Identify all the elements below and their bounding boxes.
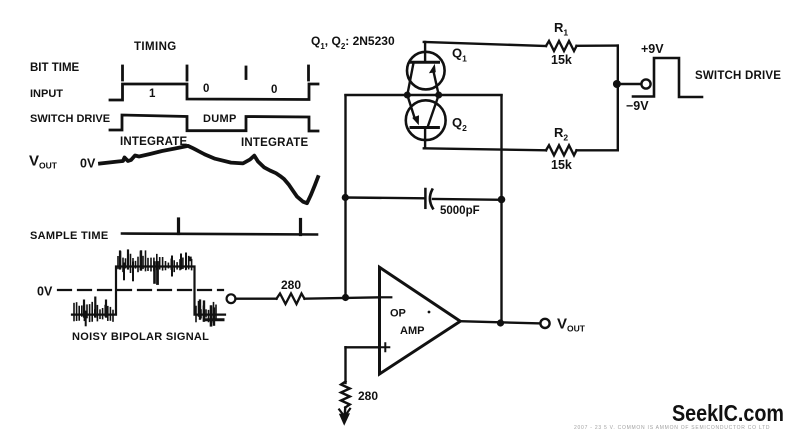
node junction right dot xyxy=(435,92,442,99)
transistor Q1 emitter leg with arrow xyxy=(433,70,439,95)
node junction left dot xyxy=(404,92,411,99)
wire top Q1 to R1 xyxy=(424,42,546,46)
transistor Q2 base bar xyxy=(411,126,438,129)
svg-text:INPUT: INPUT xyxy=(30,88,63,100)
op-amp plus sign xyxy=(381,343,389,351)
vout waveform curve xyxy=(100,146,318,203)
op-amp minus sign xyxy=(382,296,392,298)
transistor Q2 emitter leg with arrow xyxy=(407,95,415,119)
svg-text:SeekIC.com: SeekIC.com xyxy=(672,400,784,426)
svg-text:BIT TIME: BIT TIME xyxy=(30,62,80,74)
svg-text:5000pF: 5000pF xyxy=(440,205,480,217)
resistor R2 xyxy=(546,145,577,155)
switch drive pulse waveform xyxy=(633,58,702,97)
output terminal circle xyxy=(540,319,549,328)
svg-text:−9V: −9V xyxy=(626,99,649,113)
capacitor C 5000pF right plate xyxy=(430,190,433,209)
svg-text:280: 280 xyxy=(358,389,378,403)
wire feedback left to capacitor xyxy=(345,196,424,199)
transistor Q1 base bar xyxy=(411,61,439,64)
wire plus input vertical xyxy=(344,347,346,383)
transistor Q2 circle xyxy=(406,100,446,140)
wire transistor junction line xyxy=(346,94,502,96)
svg-text:SWITCH DRIVE: SWITCH DRIVE xyxy=(695,70,781,82)
svg-text:280: 280 xyxy=(281,278,301,292)
svg-text:TIMING: TIMING xyxy=(134,41,177,53)
wire right vertical R1-R2 xyxy=(617,46,619,151)
bit time tick 3 xyxy=(245,67,248,79)
wire junction to terminal xyxy=(618,83,641,85)
sample time baseline xyxy=(122,234,317,235)
svg-text:0: 0 xyxy=(203,83,209,95)
node output junction xyxy=(497,319,504,326)
svg-text:OP: OP xyxy=(390,308,406,320)
wire Q2 to R2 xyxy=(424,148,546,150)
svg-text:0: 0 xyxy=(271,84,277,96)
wire R1 to corner xyxy=(577,44,618,47)
wire R2 to corner xyxy=(577,149,618,151)
node feedback right junction xyxy=(498,196,506,204)
sample tick 1 xyxy=(177,219,180,234)
svg-text:+9V: +9V xyxy=(641,42,664,56)
transistor Q2 collector lead down xyxy=(424,128,426,149)
sample tick 2 xyxy=(299,220,302,235)
switch drive waveform xyxy=(110,115,318,131)
svg-text:1: 1 xyxy=(149,88,156,100)
svg-text:AMP: AMP xyxy=(400,325,424,337)
bit time tick 1 xyxy=(121,66,124,80)
node feedback left junction xyxy=(342,194,349,201)
transistor Q1 collector lead xyxy=(424,42,426,62)
svg-text:DUMP: DUMP xyxy=(203,113,237,125)
svg-text:2007 - 23 5 V. COMMON IS AMMON: 2007 - 23 5 V. COMMON IS AMMON OF SEMICO… xyxy=(574,425,770,430)
node minus input junction xyxy=(342,294,349,301)
wire plus input horizontal xyxy=(346,346,380,348)
wire R280 to op-amp minus node xyxy=(305,297,380,298)
wire left rail xyxy=(344,95,346,297)
input waveform xyxy=(110,84,318,100)
resistor R1 xyxy=(546,41,577,51)
svg-text:INTEGRATE: INTEGRATE xyxy=(241,137,309,149)
transistor Q1 left leg xyxy=(407,63,413,95)
svg-text:0V: 0V xyxy=(80,157,96,171)
transistor Q1 circle xyxy=(407,52,445,90)
wire terminal to R280 xyxy=(236,298,277,300)
noisy signal spikes low1 xyxy=(74,251,223,326)
noisy bipolar signal waveform xyxy=(72,267,225,315)
capacitor C 5000pF left plate xyxy=(424,189,427,208)
resistor 280 ground vertical xyxy=(341,382,350,408)
switch drive terminal circle xyxy=(641,79,650,88)
op-amp U1 triangle xyxy=(380,267,461,374)
bit time tick 4 xyxy=(307,66,310,80)
resistor 280 input xyxy=(277,294,305,305)
svg-text:15k: 15k xyxy=(551,53,572,67)
svg-text:SAMPLE TIME: SAMPLE TIME xyxy=(30,230,108,242)
wire right rail xyxy=(500,95,502,323)
node switch drive junction xyxy=(613,80,621,88)
wire capacitor to right rail xyxy=(433,198,502,201)
svg-text:SWITCH DRIVE: SWITCH DRIVE xyxy=(30,113,110,125)
svg-text:0V: 0V xyxy=(37,285,53,299)
dashed 0V reference line xyxy=(58,289,223,291)
ground arrow xyxy=(343,408,346,418)
svg-text:15k: 15k xyxy=(551,158,572,172)
input terminal circle xyxy=(227,294,236,303)
svg-text:NOISY BIPOLAR SIGNAL: NOISY BIPOLAR SIGNAL xyxy=(72,331,209,343)
bit time tick 2 xyxy=(186,66,189,80)
speck dot inside op-amp xyxy=(428,311,431,314)
wire op-amp output xyxy=(460,321,540,323)
transistor Q2 right leg xyxy=(428,95,439,126)
